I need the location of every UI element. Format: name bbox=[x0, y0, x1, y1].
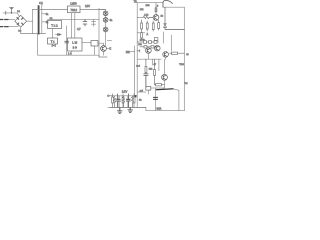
inductor L1 bbox=[163, 0, 172, 7]
capacitor C11 bbox=[127, 94, 131, 108]
svg-text:10k: 10k bbox=[138, 44, 142, 46]
svg-text:1k: 1k bbox=[139, 100, 142, 102]
svg-text:D3: D3 bbox=[18, 31, 22, 33]
resistor R11 bbox=[155, 84, 165, 86]
wire Q6 top bbox=[164, 59, 166, 74]
svg-text:12V: 12V bbox=[85, 4, 90, 8]
wire to B4 bbox=[137, 91, 146, 93]
svg-text:1k: 1k bbox=[161, 16, 164, 18]
resistor R13 bbox=[122, 94, 124, 108]
wire cluster bottom rail bbox=[108, 107, 146, 109]
box B4 bbox=[146, 87, 151, 91]
resistor R15 bbox=[155, 8, 157, 12]
wire B3 down bbox=[94, 46, 96, 55]
fuse F1 bbox=[10, 7, 14, 13]
bridge rectifier BR1 bbox=[15, 15, 27, 27]
wire U1 to U2 pin a bbox=[71, 13, 73, 38]
wire AC lower line bbox=[0, 25, 19, 27]
capacitor C9 bbox=[154, 97, 158, 99]
svg-text:3 9: 3 9 bbox=[73, 46, 78, 50]
wire Q2 collector stub bbox=[155, 3, 157, 15]
wire node K bbox=[155, 88, 157, 111]
wire cluster top rail bbox=[112, 95, 137, 97]
resistor R5 bbox=[141, 20, 143, 41]
resistor R12 bbox=[112, 94, 114, 108]
resistor R9 bbox=[170, 52, 185, 54]
wire bridge bottom bbox=[20, 27, 22, 33]
wire U1 to U2 pin b bbox=[74, 13, 76, 38]
wire amp left bus bbox=[136, 3, 138, 108]
wire Q6 emitter down bbox=[164, 80, 166, 88]
transistor Q1 bbox=[101, 46, 107, 52]
thermistor dash bbox=[157, 88, 174, 91]
svg-text:2k2: 2k2 bbox=[149, 68, 153, 70]
wire AC top line bbox=[3, 13, 19, 16]
svg-text:4a: 4a bbox=[46, 13, 49, 16]
resistor R14 bbox=[133, 94, 135, 108]
svg-text:T x 1: T x 1 bbox=[51, 23, 58, 27]
wire node F bbox=[162, 32, 164, 43]
svg-text:L M: L M bbox=[72, 41, 77, 45]
capacitor C5 bbox=[65, 41, 69, 43]
box T2 bbox=[48, 38, 58, 44]
svg-text:22k: 22k bbox=[140, 9, 144, 11]
wire bridge output right bbox=[27, 20, 33, 22]
svg-text:C1: C1 bbox=[39, 1, 43, 5]
small box B5 bbox=[154, 38, 158, 41]
resistor R7 bbox=[152, 21, 154, 31]
svg-text:7812: 7812 bbox=[70, 8, 77, 12]
wire vertical node B bbox=[32, 10, 34, 34]
svg-text:S: S bbox=[157, 5, 159, 7]
wire amp bottom rail bbox=[146, 108, 184, 111]
resistor R14 bbox=[131, 96, 133, 108]
input tick bbox=[137, 50, 140, 52]
capacitor C10 bbox=[117, 96, 120, 108]
LED DS3 bbox=[103, 27, 108, 32]
capacitor C8 bbox=[144, 74, 148, 88]
wire long vertical node E bbox=[134, 46, 136, 96]
wire Q1 stub bbox=[106, 48, 109, 50]
wire U2 ground bbox=[70, 51, 72, 55]
svg-text:4.7: 4.7 bbox=[77, 27, 81, 31]
wire T1 to T2 bbox=[52, 29, 54, 39]
wire bottom horizontal to left rail bbox=[21, 33, 46, 35]
svg-text:4n: 4n bbox=[46, 21, 49, 24]
capacitor C10 bbox=[116, 94, 120, 108]
transformer box T1 bbox=[48, 21, 62, 29]
ground G3 bbox=[128, 108, 132, 113]
LED DS1 bbox=[103, 11, 108, 16]
svg-text:D1: D1 bbox=[17, 11, 21, 13]
wire node J bbox=[151, 87, 165, 89]
wire amp top rail bbox=[137, 2, 163, 4]
terminal T3 bbox=[108, 95, 113, 97]
LED DS2 bbox=[103, 17, 108, 22]
wire regulated rail bbox=[80, 9, 106, 11]
wire output link bbox=[131, 51, 135, 53]
capacitor row C7 bbox=[140, 46, 157, 48]
wire vertical node D bbox=[66, 26, 68, 55]
svg-text:TRH: TRH bbox=[179, 64, 184, 66]
svg-text:47: 47 bbox=[154, 64, 157, 66]
wire node G bbox=[170, 35, 172, 51]
ground G3 bbox=[128, 107, 132, 112]
svg-text:TH: TH bbox=[185, 83, 188, 85]
junction node M bbox=[135, 95, 137, 97]
svg-text:TR: TR bbox=[134, 0, 137, 3]
wire rail link bbox=[99, 9, 106, 11]
wire B3 to Q1 bbox=[98, 43, 104, 45]
wire cluster bottom rail bbox=[110, 106, 146, 108]
diode D7 bowtie bbox=[52, 45, 55, 47]
wire node I bbox=[158, 59, 160, 70]
ground G2 bbox=[118, 108, 122, 114]
wire node H bbox=[151, 59, 153, 65]
wire top rail bbox=[33, 9, 68, 11]
resistor R8 bbox=[158, 21, 160, 31]
resistor R16 bbox=[154, 59, 156, 84]
resistor R13 bbox=[122, 96, 124, 108]
svg-text:A: A bbox=[147, 33, 149, 36]
transistor Q3 bbox=[146, 48, 152, 54]
wire stub node N bbox=[92, 20, 96, 26]
wire B4 stub bbox=[147, 90, 149, 94]
wire amp rail2 bbox=[163, 6, 184, 8]
svg-text:0.5A: 0.5A bbox=[157, 108, 162, 111]
switch tick bbox=[5, 11, 7, 14]
capacitor C1 bbox=[38, 6, 40, 33]
svg-text:1N4: 1N4 bbox=[146, 5, 151, 7]
resistor R12 bbox=[113, 96, 115, 108]
wire vertical node C bbox=[41, 5, 43, 34]
transistor Q6 bbox=[162, 74, 168, 80]
wire mid rail bbox=[48, 19, 100, 21]
capacitor C11 bbox=[126, 96, 129, 108]
svg-text:12: 12 bbox=[186, 54, 189, 56]
regulator U1 bbox=[68, 6, 81, 13]
resistor R4 bbox=[143, 16, 153, 18]
svg-text:LM78: LM78 bbox=[70, 2, 77, 5]
resistor stub R1 bbox=[42, 13, 45, 15]
wire right column bbox=[98, 8, 100, 57]
plug prong B bbox=[0, 26, 8, 28]
resistor stub R2 bbox=[42, 21, 45, 23]
capacitor C4 bbox=[83, 20, 87, 26]
diode D6 zener bbox=[164, 7, 185, 29]
capacitor row C6 bbox=[137, 41, 158, 44]
svg-text:4a: 4a bbox=[110, 19, 113, 22]
wire U2 out bbox=[82, 42, 91, 44]
transistor Q2 bbox=[153, 15, 159, 21]
wire bottom bus bbox=[38, 34, 108, 57]
wire LED column bbox=[105, 10, 107, 46]
resistor stub R3 bbox=[108, 40, 112, 42]
resistor R6 bbox=[146, 21, 148, 31]
resistor R10 bbox=[145, 59, 147, 73]
diode D5 bbox=[56, 33, 62, 35]
svg-text:1n4: 1n4 bbox=[136, 66, 140, 68]
wire amp right bus bbox=[183, 7, 185, 111]
box B3 bbox=[91, 41, 98, 47]
wire emitter rail bbox=[137, 53, 165, 59]
svg-text:T x: T x bbox=[51, 39, 55, 43]
svg-text:12V: 12V bbox=[122, 89, 128, 93]
transistor Q4 bbox=[155, 45, 161, 51]
svg-text:10k: 10k bbox=[126, 51, 131, 54]
svg-text:4.7k: 4.7k bbox=[144, 15, 149, 17]
plug prong A bbox=[0, 19, 8, 21]
IC U2 bbox=[68, 38, 83, 51]
wire bus to R4 bbox=[137, 17, 143, 19]
wire node A stub bbox=[137, 32, 145, 34]
ground G2 bbox=[117, 107, 121, 113]
wire node L bbox=[173, 89, 179, 111]
wire AC mid line bbox=[0, 19, 15, 21]
svg-text:E: E bbox=[110, 48, 112, 51]
wire Q1 emitter down bbox=[103, 51, 105, 55]
transistor Q5 bbox=[163, 52, 169, 58]
